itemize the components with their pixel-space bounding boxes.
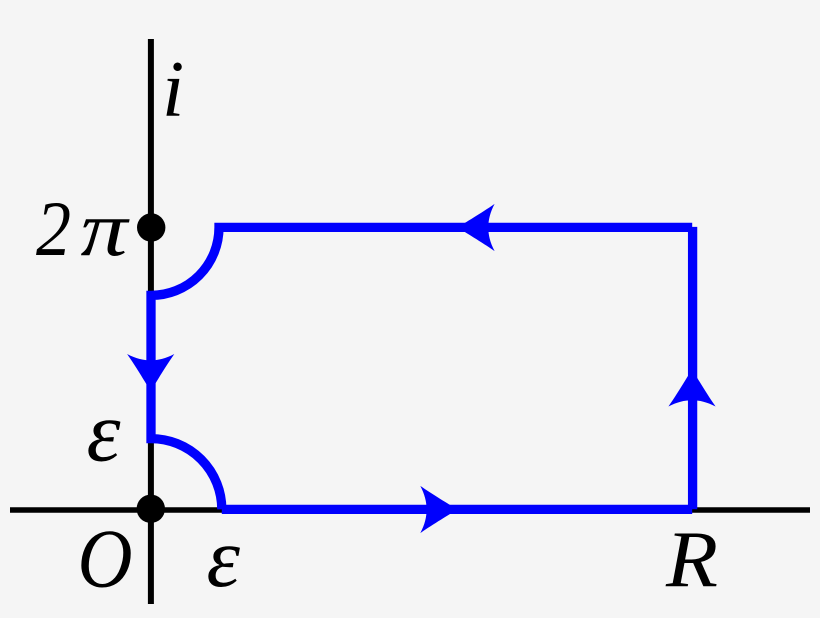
y-axis xyxy=(148,39,154,604)
x-axis xyxy=(10,507,810,513)
svg-text:π: π xyxy=(81,185,130,272)
svg-text:ε: ε xyxy=(87,384,121,480)
svg-text:2: 2 xyxy=(36,185,71,272)
svg-text:ε: ε xyxy=(207,511,241,605)
dot at origin xyxy=(137,495,165,523)
arrow up (right edge) xyxy=(668,370,715,407)
svg-text:i: i xyxy=(162,46,184,134)
svg-text:R: R xyxy=(665,516,718,604)
contour: right edge (R up to R+2πi) xyxy=(688,227,697,509)
svg-text:O: O xyxy=(78,514,133,606)
arrow right (bottom edge) xyxy=(420,486,457,533)
contour: bottom edge (ε to R) xyxy=(222,505,692,514)
contour: top edge, arc at 2πi, left segment on axis, arc at O xyxy=(151,227,692,509)
dot at 2πi xyxy=(137,213,165,241)
arrow down (left segment on y-axis) xyxy=(127,354,174,391)
arrow left (top edge) xyxy=(458,204,495,251)
